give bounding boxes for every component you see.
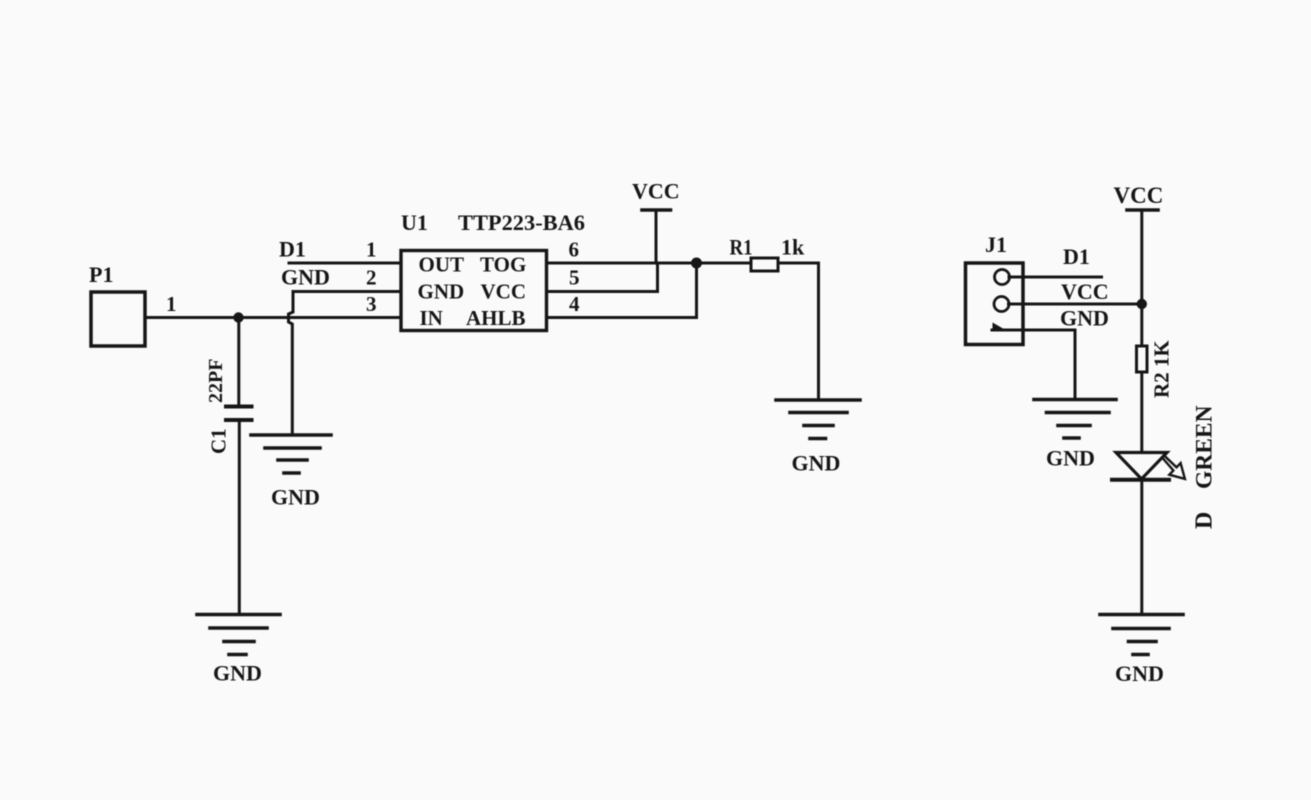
svg-text:1: 1 bbox=[366, 238, 377, 262]
svg-text:5: 5 bbox=[569, 266, 580, 290]
LED emission arrow bbox=[1162, 456, 1185, 479]
resistor R2 body bbox=[1137, 346, 1148, 372]
svg-text:U1: U1 bbox=[401, 210, 428, 235]
svg-text:3: 3 bbox=[366, 292, 377, 316]
ground symbol (bottom left) bbox=[197, 615, 280, 655]
svg-text:D: D bbox=[1192, 512, 1218, 529]
svg-text:IN: IN bbox=[420, 306, 443, 330]
ground symbol (under J1) bbox=[1034, 400, 1116, 439]
wire node B to resistor R1 bbox=[697, 262, 752, 265]
wire J1 pin 1 net D1 bbox=[1009, 276, 1102, 279]
wire VCC down to U1 pin 5 bbox=[656, 210, 658, 292]
ground symbol (bottom right) bbox=[1100, 615, 1183, 655]
connector J1 body bbox=[966, 263, 1024, 345]
wire LED to ground bbox=[1140, 480, 1143, 615]
LED D cathode bar bbox=[1112, 478, 1169, 482]
svg-text:R1: R1 bbox=[730, 235, 753, 260]
svg-text:TTP223-BA6: TTP223-BA6 bbox=[458, 210, 585, 235]
wire U1 pin 4 horizontal bbox=[547, 316, 697, 319]
svg-text:AHLB: AHLB bbox=[466, 306, 526, 330]
wire U1 pin 5 to VCC drop bbox=[547, 290, 658, 293]
svg-text:VCC: VCC bbox=[632, 179, 680, 204]
node C junction dot bbox=[1137, 299, 1147, 309]
svg-text:GREEN: GREEN bbox=[1192, 405, 1218, 489]
ground symbol (middle, U1 pin2) bbox=[251, 435, 331, 473]
svg-text:GND: GND bbox=[1115, 661, 1164, 686]
resistor R1 body bbox=[751, 258, 778, 271]
svg-text:GND: GND bbox=[792, 451, 841, 476]
svg-text:4: 4 bbox=[569, 292, 580, 316]
wire U1 pin 4 up to node B bbox=[695, 263, 698, 318]
J1 pin 1 circle bbox=[995, 270, 1010, 285]
svg-text:6: 6 bbox=[569, 238, 580, 262]
svg-text:VCC: VCC bbox=[1114, 183, 1164, 208]
J1 pin 2 circle bbox=[994, 297, 1009, 312]
node B junction dot bbox=[691, 258, 702, 269]
wire VCC down to node C bbox=[1140, 210, 1143, 304]
IC U1 body bbox=[401, 251, 547, 331]
svg-text:OUT: OUT bbox=[419, 253, 465, 277]
ground symbol (under R1) bbox=[776, 400, 860, 439]
svg-text:22PF: 22PF bbox=[205, 359, 227, 403]
svg-text:VCC: VCC bbox=[1061, 279, 1109, 304]
svg-text:D1: D1 bbox=[1063, 244, 1090, 269]
wire node A down to capacitor C1 bbox=[237, 318, 240, 407]
svg-text:1k: 1k bbox=[781, 235, 805, 260]
svg-text:P1: P1 bbox=[89, 262, 113, 287]
svg-text:J1: J1 bbox=[985, 232, 1007, 257]
svg-text:TOG: TOG bbox=[480, 253, 526, 277]
wire node A to U1 pin 3 bbox=[239, 316, 402, 319]
wire U1 pin 6 to node B bbox=[547, 262, 697, 265]
svg-text:R2 1K: R2 1K bbox=[1150, 340, 1174, 398]
svg-text:GND: GND bbox=[271, 485, 320, 510]
wire net D1 to U1 pin 1 bbox=[289, 262, 401, 265]
wire node C to resistor R2 bbox=[1140, 304, 1143, 346]
wire J1 pin 3 to ground bbox=[992, 330, 1075, 400]
node A junction dot bbox=[233, 312, 243, 322]
svg-text:1: 1 bbox=[166, 292, 177, 316]
wire U1 pin 2 horizontal bbox=[293, 290, 401, 293]
wire U1 pin 2 down to ground with jog bbox=[289, 292, 294, 435]
svg-text:GND: GND bbox=[281, 265, 330, 290]
wire P1 to node A bbox=[145, 316, 239, 319]
pad P1 bbox=[91, 292, 145, 346]
svg-text:GND: GND bbox=[213, 661, 262, 686]
capacitor C1 bottom plate bbox=[226, 418, 252, 422]
svg-text:VCC: VCC bbox=[481, 280, 527, 304]
svg-text:GND: GND bbox=[1046, 446, 1095, 471]
svg-text:C1: C1 bbox=[207, 428, 231, 454]
capacitor C1 top plate bbox=[226, 405, 252, 409]
svg-text:GND: GND bbox=[1060, 306, 1109, 331]
wire R1 to corner bbox=[778, 262, 819, 265]
LED D triangle bbox=[1116, 453, 1167, 480]
wire corner down to ground bbox=[817, 263, 820, 400]
wire C1 to ground bbox=[238, 420, 241, 614]
svg-text:GND: GND bbox=[418, 280, 465, 304]
wire R2 to LED D bbox=[1140, 372, 1143, 453]
wire J1 pin 2 to node C bbox=[1009, 303, 1142, 306]
J1 pin 3 arrow bbox=[993, 323, 1004, 332]
svg-text:2: 2 bbox=[366, 266, 377, 290]
svg-text:D1: D1 bbox=[279, 237, 306, 262]
